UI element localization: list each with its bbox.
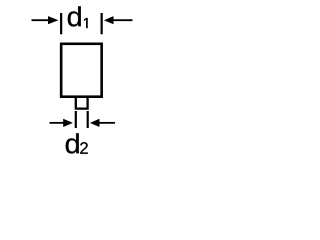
dimension d1: left extension tick <box>60 13 62 34</box>
dimension d1: right extension tick <box>101 13 103 34</box>
lead stub (bottom tab) of component <box>76 96 88 109</box>
dimension d2: right arrow shaft <box>99 122 115 124</box>
dimension d1: right arrow shaft <box>113 19 133 21</box>
dimension d2: right arrowhead <box>90 119 100 127</box>
label d2 <box>66 133 79 153</box>
component body rectangle <box>61 44 102 97</box>
dimension d1: left arrow shaft <box>32 19 49 21</box>
dimension d2: left arrowhead <box>63 119 73 127</box>
dimension d2: left arrow shaft <box>50 122 64 124</box>
label d1 <box>68 6 81 26</box>
dimension d2: left extension tick <box>75 111 77 128</box>
dimension d1: right arrowhead <box>104 16 114 24</box>
dimension d2: right extension tick <box>87 111 89 128</box>
dimension d1: left arrowhead <box>48 16 58 24</box>
